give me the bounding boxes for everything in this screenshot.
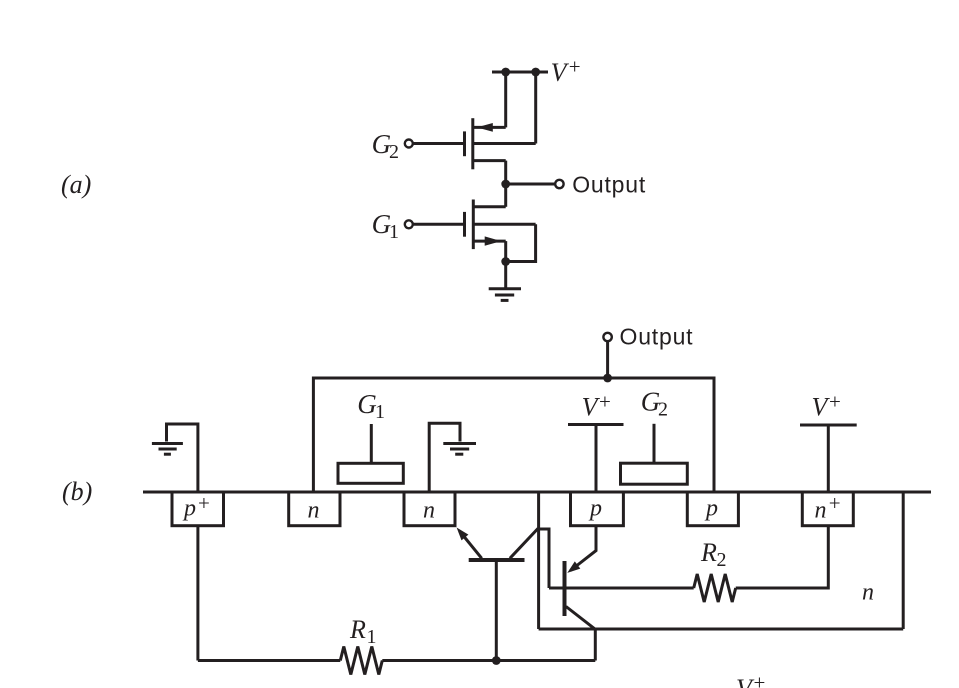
wire M1 body loop to source node [506,224,536,261]
wire V+ rail to M2 body stub [504,72,507,127]
wire V+ rail to M2 source stub [534,72,537,144]
svg-text:G: G [357,389,377,419]
svg-text:n: n [815,497,827,523]
wire R1 left segment [198,659,340,662]
terminal Output (b) open circle [603,333,611,341]
svg-text:(a): (a) [61,170,91,199]
gate G2 (b) stem [653,424,656,463]
svg-text:p: p [182,496,196,522]
label G2 [372,129,399,163]
gate G1 (b) oxide rectangle [338,463,403,483]
transistor Q2 (parasitic PNP) [565,526,597,630]
wire substrate tap (line A) down [537,492,540,629]
svg-text:+: + [569,55,581,79]
net label V+ (bottom, clipped) [736,671,765,688]
svg-text:R: R [700,538,717,567]
region p (source p1) [571,492,624,526]
net label V+ (b right) [812,389,841,421]
transistor M2 (PMOS, gate G2) [465,118,536,169]
svg-text:n: n [423,497,435,523]
node Output (a) junction dot [501,180,510,189]
svg-text:Output: Output [620,324,694,350]
junction dot Q1 base / R1 node [492,656,501,665]
terminal G2 (open circle) [405,140,413,148]
svg-text:+: + [829,491,841,515]
wire substrate bottom bus [539,628,904,631]
svg-text:2: 2 [717,549,727,571]
region n (source n1) [289,492,340,526]
junction dot on V+ rail right [531,68,540,77]
value label n+ [815,491,841,523]
terminal G1 (open circle) [405,220,413,228]
wire surface line [143,491,931,494]
terminal V+ (b middle) [568,425,624,493]
svg-text:(b): (b) [62,477,92,506]
svg-text:+: + [198,491,210,515]
wire output bus (b) [313,378,714,492]
svg-text:1: 1 [375,401,385,423]
svg-text:V: V [582,393,601,422]
wire gate lead G2 [413,142,465,145]
net label V+ (a) [551,55,581,88]
junction dot M1 source node [501,257,510,266]
net label V+ (b middle) [582,389,611,421]
terminal Output (a) open circle [555,180,563,188]
region n+ (well contact) [802,492,853,526]
region p (drain p2) [687,492,738,526]
wire substrate bus to R1 line [594,629,597,661]
wire M2 drain to output node [504,161,507,207]
label G2 (b) [641,387,668,421]
wire n2 contact to ground (b right) [429,423,460,492]
resistor R2 [694,574,736,602]
svg-text:1: 1 [389,221,399,243]
svg-text:n: n [308,497,320,523]
wire p+ down to R1 [196,526,199,661]
wire M1 source down [504,241,507,261]
gate G2 (b) oxide rectangle [621,463,688,484]
wire R1 right segment [382,659,595,662]
label G1 [372,209,399,243]
terminal V+ (b right) [800,425,857,492]
resistor R1 [340,647,382,675]
svg-text:V: V [812,393,831,422]
ground (b right) [443,444,476,455]
svg-text:+: + [754,671,766,688]
svg-text:n: n [862,580,874,606]
wire R2 to n+ contact [736,526,829,588]
wire Q1 base down to R1 node [495,558,498,660]
svg-text:p: p [588,496,602,522]
V+ rail (a) [492,71,548,74]
svg-text:Output: Output [572,172,646,198]
wire source node to ground [504,262,507,289]
wire p+ contact to ground (b left) [167,424,198,492]
svg-text:2: 2 [389,141,399,163]
region p+ (ground contact) [172,492,224,526]
label R2 [700,538,727,571]
ground (b left) [152,444,183,455]
svg-text:+: + [599,389,611,413]
junction dot output bus (b) [603,374,612,383]
svg-text:1: 1 [367,626,377,648]
label R1 [349,615,377,648]
ground (a) [489,289,521,301]
wire output terminal down [606,341,609,378]
svg-text:R: R [349,615,366,644]
svg-text:V: V [551,58,570,87]
gate G1 (b) stem [370,424,373,463]
svg-text:+: + [829,389,841,413]
wire output (a) [506,183,556,186]
svg-text:2: 2 [658,399,668,421]
wire n-well right edge down [902,492,905,629]
region n (drain n2) [404,492,455,526]
transistor M1 (NMOS, gate G1) [465,200,536,250]
svg-text:p: p [704,496,718,522]
wire gate lead G1 [413,223,465,226]
svg-text:V: V [736,674,755,688]
wire Q2 base / Q1 collector to R2 [549,587,694,590]
junction dot on V+ rail left [501,68,510,77]
transistor Q1 (parasitic NPN) [457,528,549,589]
value label p+ [182,491,210,522]
label G1 (b) [357,389,385,423]
